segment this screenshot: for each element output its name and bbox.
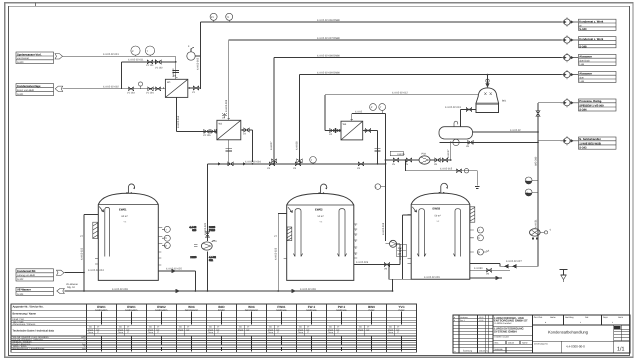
right outlet connector 1 bbox=[561, 17, 579, 26]
svg-text:Erstellt / issued: Erstellt / issued bbox=[495, 335, 510, 338]
svg-text:m³: m³ bbox=[367, 326, 370, 329]
exchanger W1 outlet right bbox=[188, 87, 201, 89]
svg-text:Vol.: Vol. bbox=[119, 326, 123, 329]
svg-text:EW01: EW01 bbox=[97, 305, 106, 309]
revision grid bbox=[453, 318, 493, 347]
svg-text:m³: m³ bbox=[97, 326, 100, 329]
svg-text:Kond. vom BHD: Kond. vom BHD bbox=[17, 89, 34, 92]
tank EW02 heater hatch bbox=[287, 227, 292, 241]
svg-text:Druck: Druck bbox=[208, 328, 213, 331]
svg-text:Name: Name bbox=[522, 342, 528, 345]
instrument circles on line A bbox=[210, 13, 217, 20]
svg-text:60 m³: 60 m³ bbox=[122, 215, 128, 218]
exchanger W3 feed pipe bbox=[325, 95, 478, 131]
heat exchanger W1 bbox=[165, 79, 187, 97]
svg-text:EW02: EW02 bbox=[315, 207, 323, 211]
distribution header bbox=[208, 164, 386, 241]
table row labels bbox=[13, 306, 55, 351]
svg-text:EW01: EW01 bbox=[127, 305, 136, 309]
svg-text:4.4-02-02: 4.4-02-02 bbox=[510, 129, 521, 132]
svg-text:Kondensat z. Werk: Kondensat z. Werk bbox=[579, 38, 603, 41]
pump P04 bbox=[530, 229, 541, 236]
svg-text:Änderung: Änderung bbox=[463, 350, 473, 353]
pipe line B (vent header 2) bbox=[229, 40, 562, 120]
svg-text:≈ t: ≈ t bbox=[320, 221, 323, 224]
svg-text:Kondensat z. Werk: Kondensat z. Werk bbox=[579, 20, 603, 23]
main right riser bbox=[537, 103, 539, 266]
svg-text:W0C: W0C bbox=[248, 305, 256, 309]
drum B02 outlet bbox=[473, 131, 539, 133]
svg-text:4.4-02-020: 4.4-02-020 bbox=[204, 222, 207, 235]
drain funnel bbox=[560, 270, 568, 276]
drum B02 vent bbox=[454, 121, 458, 127]
svg-text:Apparate-Nr. / Device No.: Apparate-Nr. / Device No. bbox=[13, 306, 44, 309]
svg-text:Technische Daten / technical d: Technische Daten / technical data bbox=[13, 330, 55, 333]
instrument circles on feedwater line bbox=[131, 46, 140, 55]
tank EW03 feed riser bbox=[403, 215, 412, 279]
pump P03 bbox=[419, 156, 430, 164]
svg-text:4.4-030: 4.4-030 bbox=[474, 267, 483, 270]
svg-text:bar: bar bbox=[337, 328, 340, 331]
vessel B01 bottom outlet bbox=[461, 109, 477, 111]
tank EW03 heater hatch bbox=[470, 207, 475, 222]
svg-text:Name: Name bbox=[550, 316, 556, 319]
svg-text:a: a bbox=[454, 317, 455, 319]
bypass pipe bbox=[122, 62, 176, 89]
svg-text:bar: bar bbox=[277, 328, 280, 331]
svg-text:Maßstab: Maßstab bbox=[495, 348, 504, 351]
valves bbox=[128, 87, 134, 91]
svg-text:P01: P01 bbox=[213, 240, 218, 243]
drain pipe bbox=[406, 160, 480, 189]
valve cluster symbols above W2 bbox=[222, 113, 227, 118]
svg-text:m³: m³ bbox=[157, 326, 160, 329]
svg-text:m: m bbox=[84, 338, 86, 341]
svg-text:S-104: S-104 bbox=[17, 293, 24, 296]
svg-text:P03: P03 bbox=[422, 153, 427, 156]
svg-text:Abmessung / Dimens.: Abmessung / Dimens. bbox=[13, 323, 37, 326]
tank EW02 dip tube left bbox=[293, 209, 302, 257]
svg-text:Datum: Datum bbox=[479, 350, 485, 353]
svg-text:Benennung / Name: Benennung / Name bbox=[13, 313, 37, 316]
svg-text:D-60295 Frankfurt: D-60295 Frankfurt bbox=[495, 322, 512, 325]
svg-text:DN50: DN50 bbox=[190, 256, 197, 259]
svg-text:bar: bar bbox=[187, 328, 190, 331]
svg-text:Werkstoff-Ausf. / Install.Powe: Werkstoff-Ausf. / Install.Power bbox=[13, 347, 45, 350]
vertical pipe labels bbox=[80, 57, 537, 260]
pump P04 outlet to tanks bbox=[500, 265, 538, 268]
tank EW01 instruments bbox=[162, 226, 170, 248]
svg-text:Datum: Datum bbox=[508, 342, 514, 345]
svg-text:V2 105: V2 105 bbox=[203, 134, 211, 137]
equipment table grid bbox=[11, 304, 417, 352]
right outlet box 3 bbox=[579, 54, 617, 65]
right outlet box 6 bbox=[579, 137, 617, 149]
svg-text:Zeichnungs-Nr.: Zeichnungs-Nr. bbox=[534, 343, 549, 346]
svg-text:4.4-02-02-025: 4.4-02-02-025 bbox=[166, 268, 182, 271]
tank EW03 nozzle stubs bbox=[408, 215, 474, 264]
VE water riser tank2 bbox=[278, 214, 287, 292]
svg-text:Vorabzug: Vorabzug bbox=[460, 316, 468, 319]
svg-text:4.4-02-005: 4.4-02-005 bbox=[197, 57, 200, 70]
svg-text:4.4-02-02-006 DN80: 4.4-02-02-006 DN80 bbox=[317, 19, 340, 22]
exchanger W2 bottom pipe bbox=[228, 140, 230, 162]
right outlet connector 5 bbox=[561, 98, 579, 107]
svg-text:4.4-02-02-008 DN80: 4.4-02-02-008 DN80 bbox=[317, 54, 340, 57]
svg-text:4.4-017: 4.4-017 bbox=[447, 149, 450, 158]
svg-text:4.4-02-024: 4.4-02-024 bbox=[399, 247, 402, 260]
svg-text:4.4-02-02-012: 4.4-02-02-012 bbox=[392, 92, 408, 95]
exchanger port ticks bbox=[163, 77, 364, 140]
tank EW03 top line bbox=[411, 203, 470, 205]
svg-text:Kondensatbeh.: Kondensatbeh. bbox=[125, 308, 138, 311]
svg-text:Nfg. 04: Nfg. 04 bbox=[67, 286, 75, 289]
right outlet connector 3 bbox=[561, 53, 579, 62]
svg-text:bar: bar bbox=[127, 328, 130, 331]
valve on P01 riser bbox=[206, 232, 210, 238]
svg-text:PW 2: PW 2 bbox=[338, 305, 346, 309]
tank EW02 feed arrow bbox=[288, 207, 292, 212]
right header band bbox=[532, 315, 629, 325]
condensate feed riser tank1 bbox=[65, 215, 99, 292]
tank EW01 nozzle stubs bbox=[95, 215, 163, 266]
pipe line E (process water out) bbox=[538, 102, 562, 104]
tank EW01 heater hatch bbox=[93, 222, 98, 238]
tank EW03 outlet pipes bbox=[470, 264, 510, 280]
svg-text:V1 104: V1 104 bbox=[146, 91, 154, 94]
reducer fittings bbox=[226, 149, 381, 151]
svg-text:LI: LI bbox=[478, 229, 480, 232]
svg-text:B01: B01 bbox=[502, 100, 507, 103]
svg-text:Druck: Druck bbox=[148, 328, 153, 331]
svg-text:Gez./Dat.: Gez./Dat. bbox=[534, 316, 543, 319]
tank EW01 vent bbox=[128, 184, 134, 193]
svg-text:FW01: FW01 bbox=[277, 305, 286, 309]
svg-text:m³: m³ bbox=[247, 326, 250, 329]
svg-text:LI: LI bbox=[164, 228, 166, 231]
svg-text:bar: bar bbox=[157, 328, 160, 331]
svg-text:Kondensatbeh.: Kondensatbeh. bbox=[95, 308, 108, 311]
tank EW01 outlet pipe bbox=[158, 270, 195, 292]
svg-text:4.4-02-02-004: 4.4-02-02-004 bbox=[245, 161, 261, 164]
right riser instruments bbox=[525, 177, 532, 184]
svg-text:Druck: Druck bbox=[238, 328, 243, 331]
svg-text:Gepr.: Gepr. bbox=[603, 316, 609, 319]
revision row marks bbox=[454, 316, 484, 322]
svg-text:4.4-02-02-013: 4.4-02-02-013 bbox=[445, 106, 461, 109]
right outlet connector 2 bbox=[561, 35, 579, 44]
svg-text:4.4-02-026: 4.4-02-026 bbox=[356, 261, 369, 264]
svg-text:Kondensatp.: Kondensatp. bbox=[306, 308, 317, 311]
instrument on header bbox=[310, 157, 317, 164]
right mini grid bbox=[614, 325, 630, 341]
svg-text:4.4-02-006: 4.4-02-006 bbox=[225, 99, 228, 112]
svg-text:1-68: 1-68 bbox=[579, 80, 584, 83]
tank EW03 vent bbox=[441, 183, 448, 193]
tank EW03 dip tube right bbox=[453, 209, 460, 257]
svg-text:bar: bar bbox=[307, 328, 310, 331]
svg-text:V1 101: V1 101 bbox=[146, 64, 154, 67]
svg-text:1) WIE BES WSB: 1) WIE BES WSB bbox=[579, 142, 601, 145]
svg-text:Kondensatp.: Kondensatp. bbox=[276, 308, 287, 311]
svg-text:4.4-008: 4.4-008 bbox=[296, 141, 299, 150]
drum outlet pipe bbox=[440, 141, 538, 143]
left inlet box 4 bbox=[16, 287, 64, 295]
svg-text:V1 103: V1 103 bbox=[127, 91, 135, 94]
svg-text:4.4-02-015: 4.4-02-015 bbox=[440, 168, 453, 171]
tank EW02 vent bbox=[321, 184, 327, 193]
right outlet box 1 bbox=[579, 19, 617, 30]
svg-text:Vol.: Vol. bbox=[179, 326, 183, 329]
tank EW01 body bbox=[98, 193, 158, 280]
svg-text:Vol.: Vol. bbox=[269, 326, 273, 329]
svg-text:4.4-02: 4.4-02 bbox=[355, 110, 363, 113]
fold mark top bbox=[35, 3, 37, 6]
svg-text:Wärmetauscher: Wärmetauscher bbox=[245, 308, 259, 311]
svg-text:Druck: Druck bbox=[118, 328, 123, 331]
pump P03 suction bbox=[386, 159, 420, 161]
svg-text:B0D: B0D bbox=[218, 305, 225, 309]
pump P03 discharge bbox=[430, 142, 451, 160]
svg-text:FW 2: FW 2 bbox=[308, 305, 316, 309]
svg-text:Kondensatbehandlung: Kondensatbehandlung bbox=[548, 329, 588, 334]
svg-text:bar: bar bbox=[397, 328, 400, 331]
svg-text:50 m³: 50 m³ bbox=[435, 214, 441, 217]
svg-text:4.4-010: 4.4-010 bbox=[172, 68, 175, 77]
svg-text:Druck: Druck bbox=[388, 328, 393, 331]
svg-text:Kondensat BK: Kondensat BK bbox=[17, 270, 36, 273]
svg-text:4.4-02-02-029: 4.4-02-02-029 bbox=[424, 276, 440, 279]
tank EW01 dip tube bbox=[105, 207, 110, 256]
svg-text:S-102: S-102 bbox=[17, 278, 24, 281]
svg-text:Kondensatp.: Kondensatp. bbox=[336, 308, 347, 311]
pump P01 discharge bbox=[207, 251, 209, 291]
right outlet box 2 bbox=[579, 37, 617, 48]
svg-text:TI: TI bbox=[478, 237, 480, 240]
svg-text:EW02: EW02 bbox=[157, 305, 166, 309]
tank EW02 nozzle stubs bbox=[284, 214, 358, 259]
vessel B01 vent pipe bbox=[487, 75, 489, 85]
tank EW01 bottom line bbox=[98, 204, 158, 206]
feedwater inlet pipe bbox=[63, 56, 179, 79]
svg-text:4.4-02-016: 4.4-02-016 bbox=[382, 222, 385, 235]
svg-text:m³: m³ bbox=[397, 326, 400, 329]
tank EW02 top line bbox=[287, 204, 354, 206]
svg-text:Druck: Druck bbox=[298, 328, 303, 331]
svg-text:4.4-02-023: 4.4-02-023 bbox=[275, 247, 278, 260]
svg-text:S-321: S-321 bbox=[17, 93, 24, 96]
svg-text:bar: bar bbox=[217, 328, 220, 331]
svg-text:Kondensatvorlage: Kondensatvorlage bbox=[17, 85, 41, 88]
svg-text:4.4-007: 4.4-007 bbox=[270, 141, 273, 150]
condensate inlet pipe bbox=[63, 88, 166, 90]
svg-text:TI: TI bbox=[164, 237, 166, 240]
right outlet connector 6 bbox=[561, 136, 579, 145]
right outlet box 5 bbox=[579, 99, 617, 111]
svg-text:V1 102: V1 102 bbox=[155, 67, 163, 70]
svg-text:YVC: YVC bbox=[398, 305, 405, 309]
table column headers bbox=[97, 305, 405, 309]
svg-text:Vol.: Vol. bbox=[209, 326, 213, 329]
svg-text:EW01: EW01 bbox=[119, 207, 127, 211]
svg-text:Druck: Druck bbox=[358, 328, 363, 331]
title cell bbox=[532, 325, 629, 353]
svg-text:Abwasser: Abwasser bbox=[579, 73, 592, 76]
svg-text:über Dach: über Dach bbox=[579, 59, 590, 62]
svg-text:Q: Q bbox=[526, 192, 528, 195]
instrument on condensate line bbox=[138, 82, 142, 86]
svg-text:4.4-02-02-009 DN80: 4.4-02-02-009 DN80 bbox=[317, 71, 340, 74]
svg-text:Nachtrag: Nachtrag bbox=[565, 316, 574, 319]
svg-text:m³: m³ bbox=[217, 326, 220, 329]
svg-text:S-320: S-320 bbox=[17, 61, 24, 64]
header flow arrows bbox=[218, 162, 246, 165]
svg-text:Druck: Druck bbox=[328, 328, 333, 331]
tank EW02 dip tube right bbox=[337, 209, 346, 257]
exchanger W2 outlet right bbox=[241, 130, 253, 162]
instrument pair near W3 bbox=[370, 104, 377, 111]
tank EW02 nozzle text column bbox=[355, 224, 357, 256]
heat exchanger W3 bbox=[341, 121, 363, 140]
svg-text:Vol.: Vol. bbox=[329, 326, 333, 329]
svg-text:WG-340: WG-340 bbox=[534, 156, 537, 166]
svg-text:1/1: 1/1 bbox=[617, 347, 625, 353]
svg-text:021: 021 bbox=[209, 259, 214, 262]
tank EW02 body bbox=[287, 194, 354, 281]
svg-text:50 m³: 50 m³ bbox=[318, 215, 324, 218]
vessel B01 bbox=[476, 88, 499, 103]
svg-text:Vol.: Vol. bbox=[149, 326, 153, 329]
heat exchanger W2 bbox=[217, 120, 241, 140]
svg-text:Druck: Druck bbox=[268, 328, 273, 331]
svg-text:Norm: Norm bbox=[618, 316, 623, 319]
svg-text:020: 020 bbox=[192, 229, 197, 232]
pipe line F (to sludge treatment) bbox=[538, 140, 562, 142]
svg-text:1-68: 1-68 bbox=[579, 63, 584, 66]
svg-text:VE-Wasser: VE-Wasser bbox=[17, 289, 31, 292]
svg-text:4.4-02-02-007 DN80: 4.4-02-02-007 DN80 bbox=[317, 37, 340, 40]
svg-text:von Kessel: von Kessel bbox=[17, 57, 29, 60]
svg-text:10.02: 10.02 bbox=[479, 316, 484, 319]
svg-text:Abwasser: Abwasser bbox=[579, 56, 592, 59]
tank EW03 feed arrow bbox=[412, 207, 416, 212]
svg-text:Kondensatbeh.: Kondensatbeh. bbox=[155, 308, 168, 311]
svg-text:4.4-02-022: 4.4-02-022 bbox=[80, 247, 83, 260]
svg-text:bar: bar bbox=[247, 328, 250, 331]
svg-text:ENTSORGUNG GMBH ST: ENTSORGUNG GMBH ST bbox=[494, 319, 528, 323]
svg-text:4.4-02-02-011: 4.4-02-02-011 bbox=[128, 59, 144, 62]
svg-text:S-340: S-340 bbox=[579, 28, 587, 31]
exchanger W3 top pipe bbox=[352, 114, 386, 242]
table data cells bbox=[88, 326, 400, 334]
svg-text:EW-05: EW-05 bbox=[398, 153, 406, 156]
svg-text:Druck: Druck bbox=[88, 328, 93, 331]
svg-text:m³: m³ bbox=[127, 326, 130, 329]
svg-text:S-348: S-348 bbox=[579, 45, 587, 48]
svg-text:Rev. 1: Rev. 1 bbox=[460, 319, 465, 322]
small label box near P03 bbox=[390, 151, 403, 155]
svg-text:Pumpe: Pumpe bbox=[369, 308, 375, 311]
svg-text:4.4-02-02-001: 4.4-02-02-001 bbox=[103, 53, 119, 56]
title block texts bbox=[454, 316, 623, 353]
svg-text:BW0: BW0 bbox=[368, 305, 375, 309]
svg-text:b: b bbox=[454, 319, 455, 322]
svg-text:≈ t: ≈ t bbox=[437, 220, 440, 223]
tank EW03 dip tube left bbox=[417, 209, 426, 257]
svg-text:Vol.: Vol. bbox=[299, 326, 303, 329]
svg-text:Gez.: Gez. bbox=[495, 342, 500, 345]
company cells bbox=[493, 326, 532, 350]
svg-text:Prozessw. Rückg.: Prozessw. Rückg. bbox=[579, 100, 602, 103]
exchanger W3 outlet pipe bbox=[363, 131, 378, 164]
right outlet connector 4 bbox=[561, 70, 579, 79]
svg-text:bar: bar bbox=[367, 328, 370, 331]
svg-text:4.4-02-014: 4.4-02-014 bbox=[177, 115, 180, 128]
svg-text:4.4-02-02-002: 4.4-02-02-002 bbox=[103, 86, 119, 89]
instrument circle on drum outlet bbox=[453, 139, 459, 145]
svg-text:Behälter: Behälter bbox=[218, 308, 225, 311]
svg-text:W.: W. bbox=[579, 24, 582, 27]
svg-text:SYSTEME GMBH: SYSTEME GMBH bbox=[494, 329, 517, 333]
svg-text:m³: m³ bbox=[277, 326, 280, 329]
svg-text:≈ t: ≈ t bbox=[124, 221, 127, 224]
svg-text:4.4-02-02-028: 4.4-02-02-028 bbox=[300, 288, 316, 291]
svg-text:Leitung von BHD: Leitung von BHD bbox=[17, 274, 35, 277]
pipe line C (vent header 3) bbox=[274, 58, 562, 162]
svg-text:QI: QI bbox=[478, 251, 481, 254]
left inlet box 1 bbox=[16, 52, 63, 64]
svg-text:4.4-02-02-027: 4.4-02-02-027 bbox=[506, 260, 522, 263]
pipe line A (vent header 1) bbox=[201, 22, 562, 89]
svg-text:m³: m³ bbox=[307, 326, 310, 329]
svg-text:EW03: EW03 bbox=[433, 207, 441, 211]
tank EW02 outlet pipe bbox=[354, 265, 411, 292]
table column centre dividers bbox=[94, 312, 402, 352]
left inlet box 2 bbox=[16, 84, 63, 96]
svg-text:Wärmetauscher: Wärmetauscher bbox=[185, 308, 199, 311]
svg-text:Druck: Druck bbox=[178, 328, 183, 331]
left inlet box 3 bbox=[16, 269, 64, 281]
tank EW03 instruments bbox=[477, 227, 488, 255]
svg-text:4.4-031: 4.4-031 bbox=[534, 219, 537, 228]
drum B02 feed bbox=[460, 110, 462, 127]
svg-text:m³: m³ bbox=[337, 326, 340, 329]
pump P02 bbox=[390, 240, 397, 247]
svg-text:Pumpe: Pumpe bbox=[399, 308, 405, 311]
svg-text:Dat.: Dat. bbox=[585, 316, 589, 319]
svg-text:Vol.: Vol. bbox=[389, 326, 393, 329]
svg-text:4.4-0300-00-0: 4.4-0300-00-0 bbox=[566, 344, 585, 348]
svg-text:bar: bar bbox=[97, 328, 100, 331]
svg-text:N. Salzbehandler: N. Salzbehandler bbox=[579, 138, 601, 141]
svg-text:PN16: PN16 bbox=[209, 229, 216, 232]
svg-text:Speisewasser-Vorl.: Speisewasser-Vorl. bbox=[17, 53, 42, 56]
drum B02 bbox=[439, 127, 473, 139]
svg-text:4.4-02-02-028: 4.4-02-02-028 bbox=[112, 288, 128, 291]
exchanger W1 to W2 pipe bbox=[177, 97, 217, 131]
flow meter instrument bbox=[187, 52, 195, 60]
svg-text:W0C: W0C bbox=[188, 305, 196, 309]
svg-text:11.02: 11.02 bbox=[479, 319, 483, 322]
pipe labels bbox=[88, 19, 522, 291]
svg-text:m³: m³ bbox=[187, 326, 190, 329]
svg-text:S-344: S-344 bbox=[579, 109, 587, 112]
svg-text:Vol.: Vol. bbox=[89, 326, 93, 329]
svg-text:QI: QI bbox=[164, 244, 167, 247]
title block frame bbox=[453, 315, 630, 353]
VE water header bbox=[65, 290, 393, 293]
svg-text:über: über bbox=[579, 76, 584, 79]
